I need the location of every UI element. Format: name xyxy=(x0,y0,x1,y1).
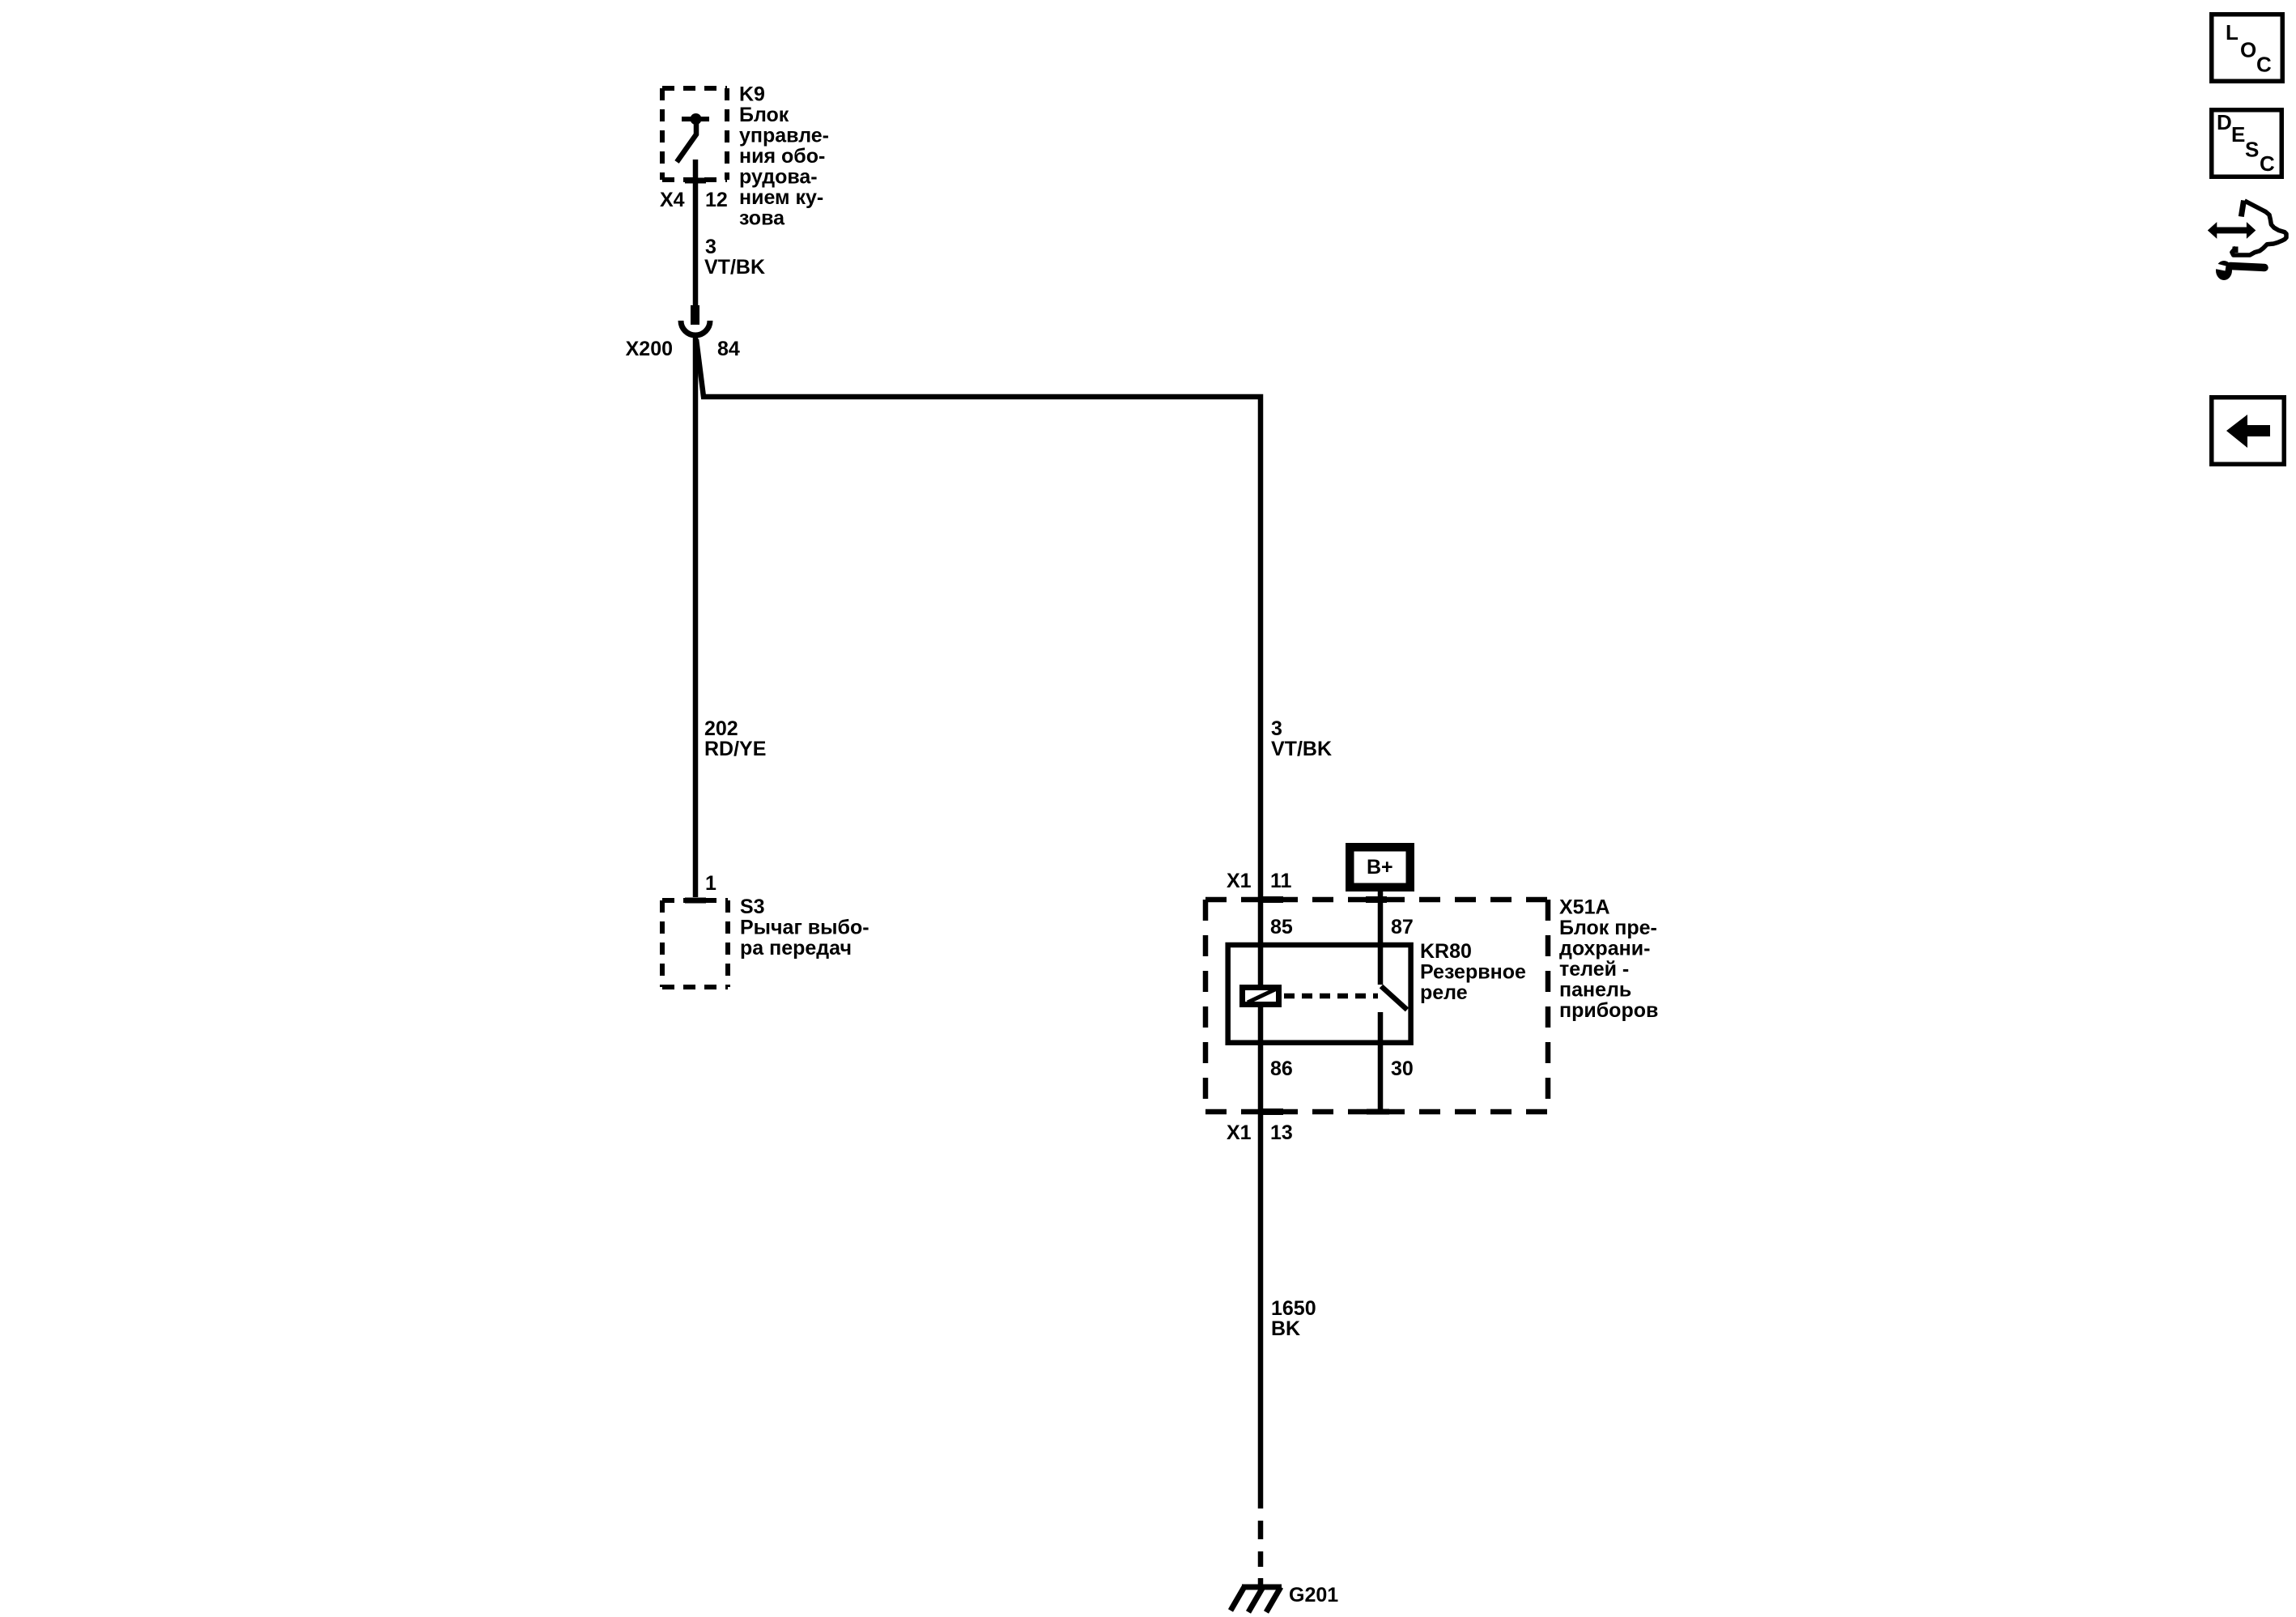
tick at left wire crossing bottom edge xyxy=(1261,1108,1283,1115)
svg-text:VT/BK: VT/BK xyxy=(1271,738,1332,760)
svg-text:D: D xyxy=(2217,110,2232,134)
svg-text:C: C xyxy=(2260,151,2275,176)
branch wire to relay xyxy=(696,339,1261,985)
svg-text:реле: реле xyxy=(1420,981,1468,1004)
wire B+ to relay pin 87 xyxy=(1378,891,1384,985)
connector tick S3 pin 1 xyxy=(685,898,706,904)
svg-text:87: 87 xyxy=(1391,916,1414,938)
svg-text:VT/BK: VT/BK xyxy=(704,256,765,279)
svg-text:G201: G201 xyxy=(1289,1584,1338,1606)
car icon double arrow xyxy=(2208,222,2256,239)
svg-text:приборов: приборов xyxy=(1559,999,1658,1022)
car icon wrench shaft xyxy=(2230,266,2264,268)
connector tick X4/12 xyxy=(685,178,706,184)
svg-text:Рычаг выбо-: Рычаг выбо- xyxy=(740,917,870,939)
connector X200 male pin xyxy=(691,305,699,325)
svg-text:Резервное: Резервное xyxy=(1420,961,1526,984)
svg-text:X1: X1 xyxy=(1227,870,1252,892)
back arrow xyxy=(2226,415,2270,448)
svg-text:202: 202 xyxy=(704,717,738,740)
svg-text:RD/YE: RD/YE xyxy=(704,738,766,760)
svg-text:B+: B+ xyxy=(1367,856,1393,879)
power feed B+ box xyxy=(1350,847,1410,887)
svg-text:30: 30 xyxy=(1391,1057,1414,1080)
svg-text:нием ку-: нием ку- xyxy=(739,186,823,209)
svg-text:дохрани-: дохрани- xyxy=(1559,938,1650,960)
back arrow nav box xyxy=(2212,398,2285,465)
svg-text:84: 84 xyxy=(717,338,740,360)
svg-text:86: 86 xyxy=(1270,1057,1293,1080)
svg-text:85: 85 xyxy=(1270,916,1293,938)
K9 switch contact bar xyxy=(682,117,709,121)
svg-text:BK: BK xyxy=(1271,1317,1300,1340)
svg-text:S3: S3 xyxy=(740,896,765,918)
svg-text:ния обо-: ния обо- xyxy=(739,145,825,168)
svg-text:11: 11 xyxy=(1270,870,1292,892)
K9 switch arm xyxy=(677,121,696,162)
svg-text:13: 13 xyxy=(1270,1121,1293,1144)
car icon door mark xyxy=(2233,247,2239,253)
svg-text:S: S xyxy=(2245,138,2259,162)
svg-text:X200: X200 xyxy=(626,338,673,360)
fuse box X51A dashed border xyxy=(1205,900,1548,1112)
svg-text:телей -: телей - xyxy=(1559,958,1629,981)
relay pin 30 wire xyxy=(1378,1012,1384,1112)
svg-text:рудова-: рудова- xyxy=(739,166,818,189)
svg-text:12: 12 xyxy=(705,189,728,211)
svg-text:KR80: KR80 xyxy=(1420,940,1472,963)
svg-text:Блок пре-: Блок пре- xyxy=(1559,917,1657,939)
svg-text:X1: X1 xyxy=(1227,1121,1252,1144)
K9 switch pivot dot xyxy=(691,113,702,125)
control unit K9 dashed box xyxy=(662,88,727,180)
relay coil xyxy=(1243,988,1279,1005)
svg-text:K9: K9 xyxy=(739,83,765,106)
DESC nav box xyxy=(2212,110,2282,177)
svg-text:3: 3 xyxy=(1271,717,1282,740)
coil diagonal xyxy=(1248,989,1277,1002)
svg-text:X51A: X51A xyxy=(1559,896,1610,919)
car icon windshield pillar xyxy=(2241,201,2243,217)
svg-text:1650: 1650 xyxy=(1271,1297,1316,1320)
svg-text:L: L xyxy=(2226,20,2239,45)
relay contact blade xyxy=(1381,986,1407,1010)
car icon body outline xyxy=(2232,201,2286,255)
svg-text:O: O xyxy=(2240,38,2256,62)
wire X200 to S3 xyxy=(693,338,699,897)
connector X200 female socket xyxy=(681,321,710,335)
tick at left wire crossing top edge xyxy=(1261,896,1283,903)
wire relay coil to ground xyxy=(1258,1007,1264,1508)
coil actuation dashed link xyxy=(1284,994,1378,999)
lever S3 dashed box xyxy=(662,900,728,987)
svg-text:1: 1 xyxy=(705,872,716,895)
tick pin 30 at box edge xyxy=(1367,1109,1389,1115)
ground G201 symbol xyxy=(1231,1585,1282,1612)
svg-text:X4: X4 xyxy=(660,189,685,211)
svg-text:ра передач: ра передач xyxy=(740,937,852,960)
tick at B+ wire crossing xyxy=(1366,896,1387,903)
svg-text:зова: зова xyxy=(739,207,785,230)
svg-text:C: C xyxy=(2256,53,2272,77)
svg-text:Блок: Блок xyxy=(739,104,789,126)
relay KR80 box xyxy=(1228,945,1411,1043)
svg-text:E: E xyxy=(2231,122,2245,147)
svg-text:управле-: управле- xyxy=(739,125,829,147)
wire K9 pin 12 to X200 xyxy=(693,160,699,307)
dashed wire segment to ground xyxy=(1258,1521,1264,1587)
svg-text:3: 3 xyxy=(705,236,716,258)
svg-text:панель: панель xyxy=(1559,979,1631,1002)
car icon wrench head xyxy=(2216,261,2232,280)
LOC nav box xyxy=(2212,15,2283,82)
